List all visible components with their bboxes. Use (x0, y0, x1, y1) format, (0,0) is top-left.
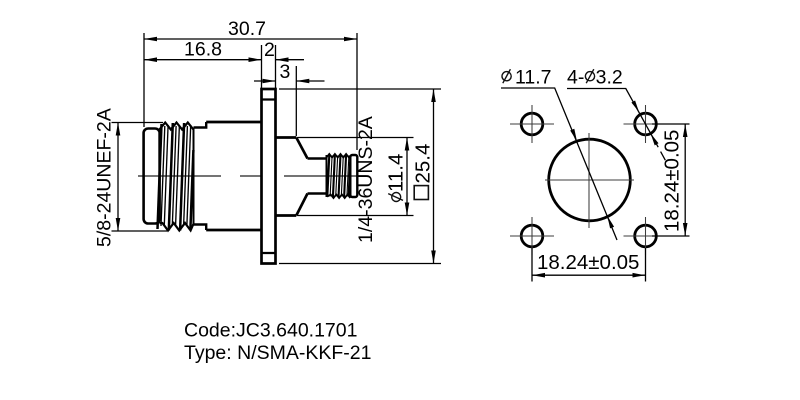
N thread right boundary (193, 128, 195, 225)
ext line taper start (x=296.3) (295, 66, 297, 136)
N coupling nut rear cap (144, 129, 160, 224)
N body outline (206, 122, 261, 230)
dimension 30.7 (144, 18, 357, 41)
svg-text:25.4: 25.4 (412, 144, 435, 184)
svg-text:4-: 4- (567, 67, 584, 89)
svg-text:11.4: 11.4 (385, 154, 408, 192)
extension line right end face (x=357) (356, 33, 358, 150)
svg-text:18.24±0.05: 18.24±0.05 (537, 251, 639, 274)
flange corner tangent lines (262, 100, 276, 254)
svg-text:2: 2 (264, 39, 275, 61)
leader dia 11.7 (501, 67, 617, 240)
N thread helix thick lines (158, 123, 194, 231)
dimension dia 11.4 (298, 138, 414, 216)
extension line left (x=144) (143, 33, 145, 127)
flange width ext lines (262, 45, 276, 88)
dimension 16.8 (144, 39, 262, 63)
SMA thread bottom crest zigzag (327, 195, 351, 199)
svg-text:Code:JC3.640.1701: Code:JC3.640.1701 (184, 319, 357, 341)
SMA neck (308, 159, 327, 194)
SMA thread left boundary (326, 155, 328, 197)
front view: mount hole top-right (624, 105, 668, 143)
N thread helix thin lines (161, 125, 191, 226)
dimension 18.24 right (652, 124, 690, 236)
flange (side view) (262, 89, 276, 264)
svg-text:3: 3 (280, 61, 291, 83)
front view: mount hole top-left (510, 105, 554, 143)
boss cylinder dia 11.4 (276, 138, 297, 216)
svg-text:18.24±0.05: 18.24±0.05 (661, 130, 684, 232)
front view: center boss circle (545, 133, 634, 228)
svg-text:Type: N/SMA-KKF-21: Type: N/SMA-KKF-21 (184, 342, 371, 364)
SMA end cap (350, 155, 357, 197)
SMA thread top crest zigzag (327, 154, 351, 158)
dimension 3 (254, 61, 325, 83)
svg-text:16.8: 16.8 (184, 39, 222, 61)
dimension square 25.4 (279, 89, 441, 264)
dimension 2 (right outside arrow) (264, 39, 304, 62)
N thread bottom crest zigzag (160, 223, 194, 231)
front view: mount hole bottom-left (510, 217, 554, 255)
svg-text:11.7: 11.7 (515, 67, 552, 89)
thread relief step outline (194, 122, 207, 230)
svg-text:30.7: 30.7 (228, 18, 266, 40)
N thread top crest zigzag (160, 123, 194, 130)
front view: mount hole bottom-right (624, 217, 668, 255)
taper cone (296, 138, 307, 216)
svg-text:1/4-36UNS-2A: 1/4-36UNS-2A (355, 116, 377, 243)
leader 4-dia 3.2 (567, 67, 665, 161)
centerline (side view axis) (138, 175, 366, 177)
dimension 18.24 bottom (532, 248, 646, 282)
SMA thread helix lines (327, 155, 350, 198)
dimension 5/8-24UNEF-2A (94, 108, 168, 247)
svg-text:3.2: 3.2 (596, 67, 623, 89)
svg-text:5/8-24UNEF-2A: 5/8-24UNEF-2A (94, 108, 116, 247)
